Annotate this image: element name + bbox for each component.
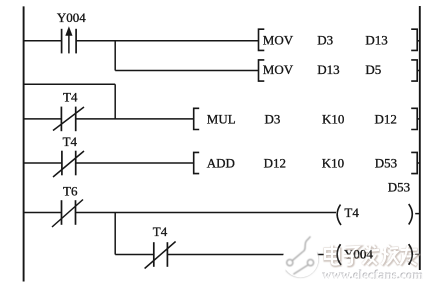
wire tick coil Y004 to rail [415,254,420,256]
coil T4 right paren [409,204,413,225]
svg-text:D12: D12 [375,111,397,126]
wire tick bracket2 to rail [417,70,420,72]
svg-text:ADD: ADD [207,155,235,170]
wire tick bracket3 to rail [417,118,420,120]
instruction MUL right bracket [411,108,417,129]
svg-text:T4: T4 [63,134,78,149]
svg-text:D12: D12 [264,155,286,170]
wire branch right [167,254,336,256]
wire branch vertical rung1 [114,41,116,71]
svg-text:D3: D3 [317,32,333,47]
coil Y004 right paren [409,244,413,265]
instruction MUL D3 K10 D12 text [207,111,397,126]
instruction MOV D13 D5 right bracket [411,60,417,81]
instruction ADD D12 K10 D53 text [207,155,397,170]
contact T4 normally-closed rung3 [53,107,84,132]
svg-text:D13: D13 [317,62,339,77]
wire rung3 parallel branch vertical [114,84,116,119]
svg-text:D13: D13 [365,32,387,47]
wire rung4 left [24,162,62,164]
wire rung3 left [24,118,62,120]
svg-text:T4: T4 [344,205,359,220]
wire branch rung1 row2 [115,70,258,72]
wire rung5 left [24,212,62,214]
watermark logo circle [283,236,319,277]
svg-text:www.elecfans.com: www.elecfans.com [323,267,424,282]
instruction MOV D3 D13 right bracket [411,29,417,50]
coil Y004 right paren redraw [409,244,413,265]
wire rung1 left [24,40,62,42]
wire rung3 right [76,118,194,120]
coil T4 left paren [337,205,341,225]
left power rail [23,6,25,281]
contact Y004 rising-edge pulse [62,26,77,53]
svg-text:T4: T4 [63,89,78,104]
svg-text:D3: D3 [265,111,281,126]
watermark url www.elecfans.com [322,267,424,283]
right power rail [419,6,421,270]
svg-text:D53: D53 [388,180,410,195]
coil Y004 left paren redraw [337,244,341,265]
svg-text:T4: T4 [153,224,168,239]
wire branch vertical rung5 [114,213,116,255]
wire rung4 right [76,162,194,164]
wire branch left [115,254,154,256]
instruction MOV D3 D13 left bracket [259,29,265,50]
wire tick coil T4 to rail [415,213,420,215]
coil Y004 left paren [337,244,341,265]
instruction ADD left bracket [194,152,200,173]
svg-text:K10: K10 [322,111,344,126]
wire tick bracket1 to rail [417,40,420,42]
wire tick bracket4 to rail [417,162,420,164]
contact T6 normally-closed [52,200,83,228]
wire rung5 right [76,212,337,214]
svg-text:004: 004 [353,247,373,262]
instruction MOV D13 D5 left bracket [259,60,265,81]
svg-text:D5: D5 [365,62,381,77]
wire rung1 right [76,40,258,42]
instruction MOV D3 D13 text [263,32,388,47]
svg-text:MUL: MUL [207,111,236,126]
instruction MUL left bracket [194,108,200,129]
instruction ADD right bracket [411,152,417,173]
contact T4 normally-closed rung4 [53,151,84,177]
svg-text:T6: T6 [63,184,78,199]
svg-text:D53: D53 [375,155,397,170]
svg-text:MOV: MOV [263,32,294,47]
wire rung3 parallel branch top [24,83,116,85]
instruction MOV D13 D5 text [263,62,381,77]
svg-text:K10: K10 [322,155,344,170]
svg-text:Y004: Y004 [57,10,86,25]
svg-text:MOV: MOV [263,62,294,77]
contact T4 normally-closed branch [145,242,176,269]
